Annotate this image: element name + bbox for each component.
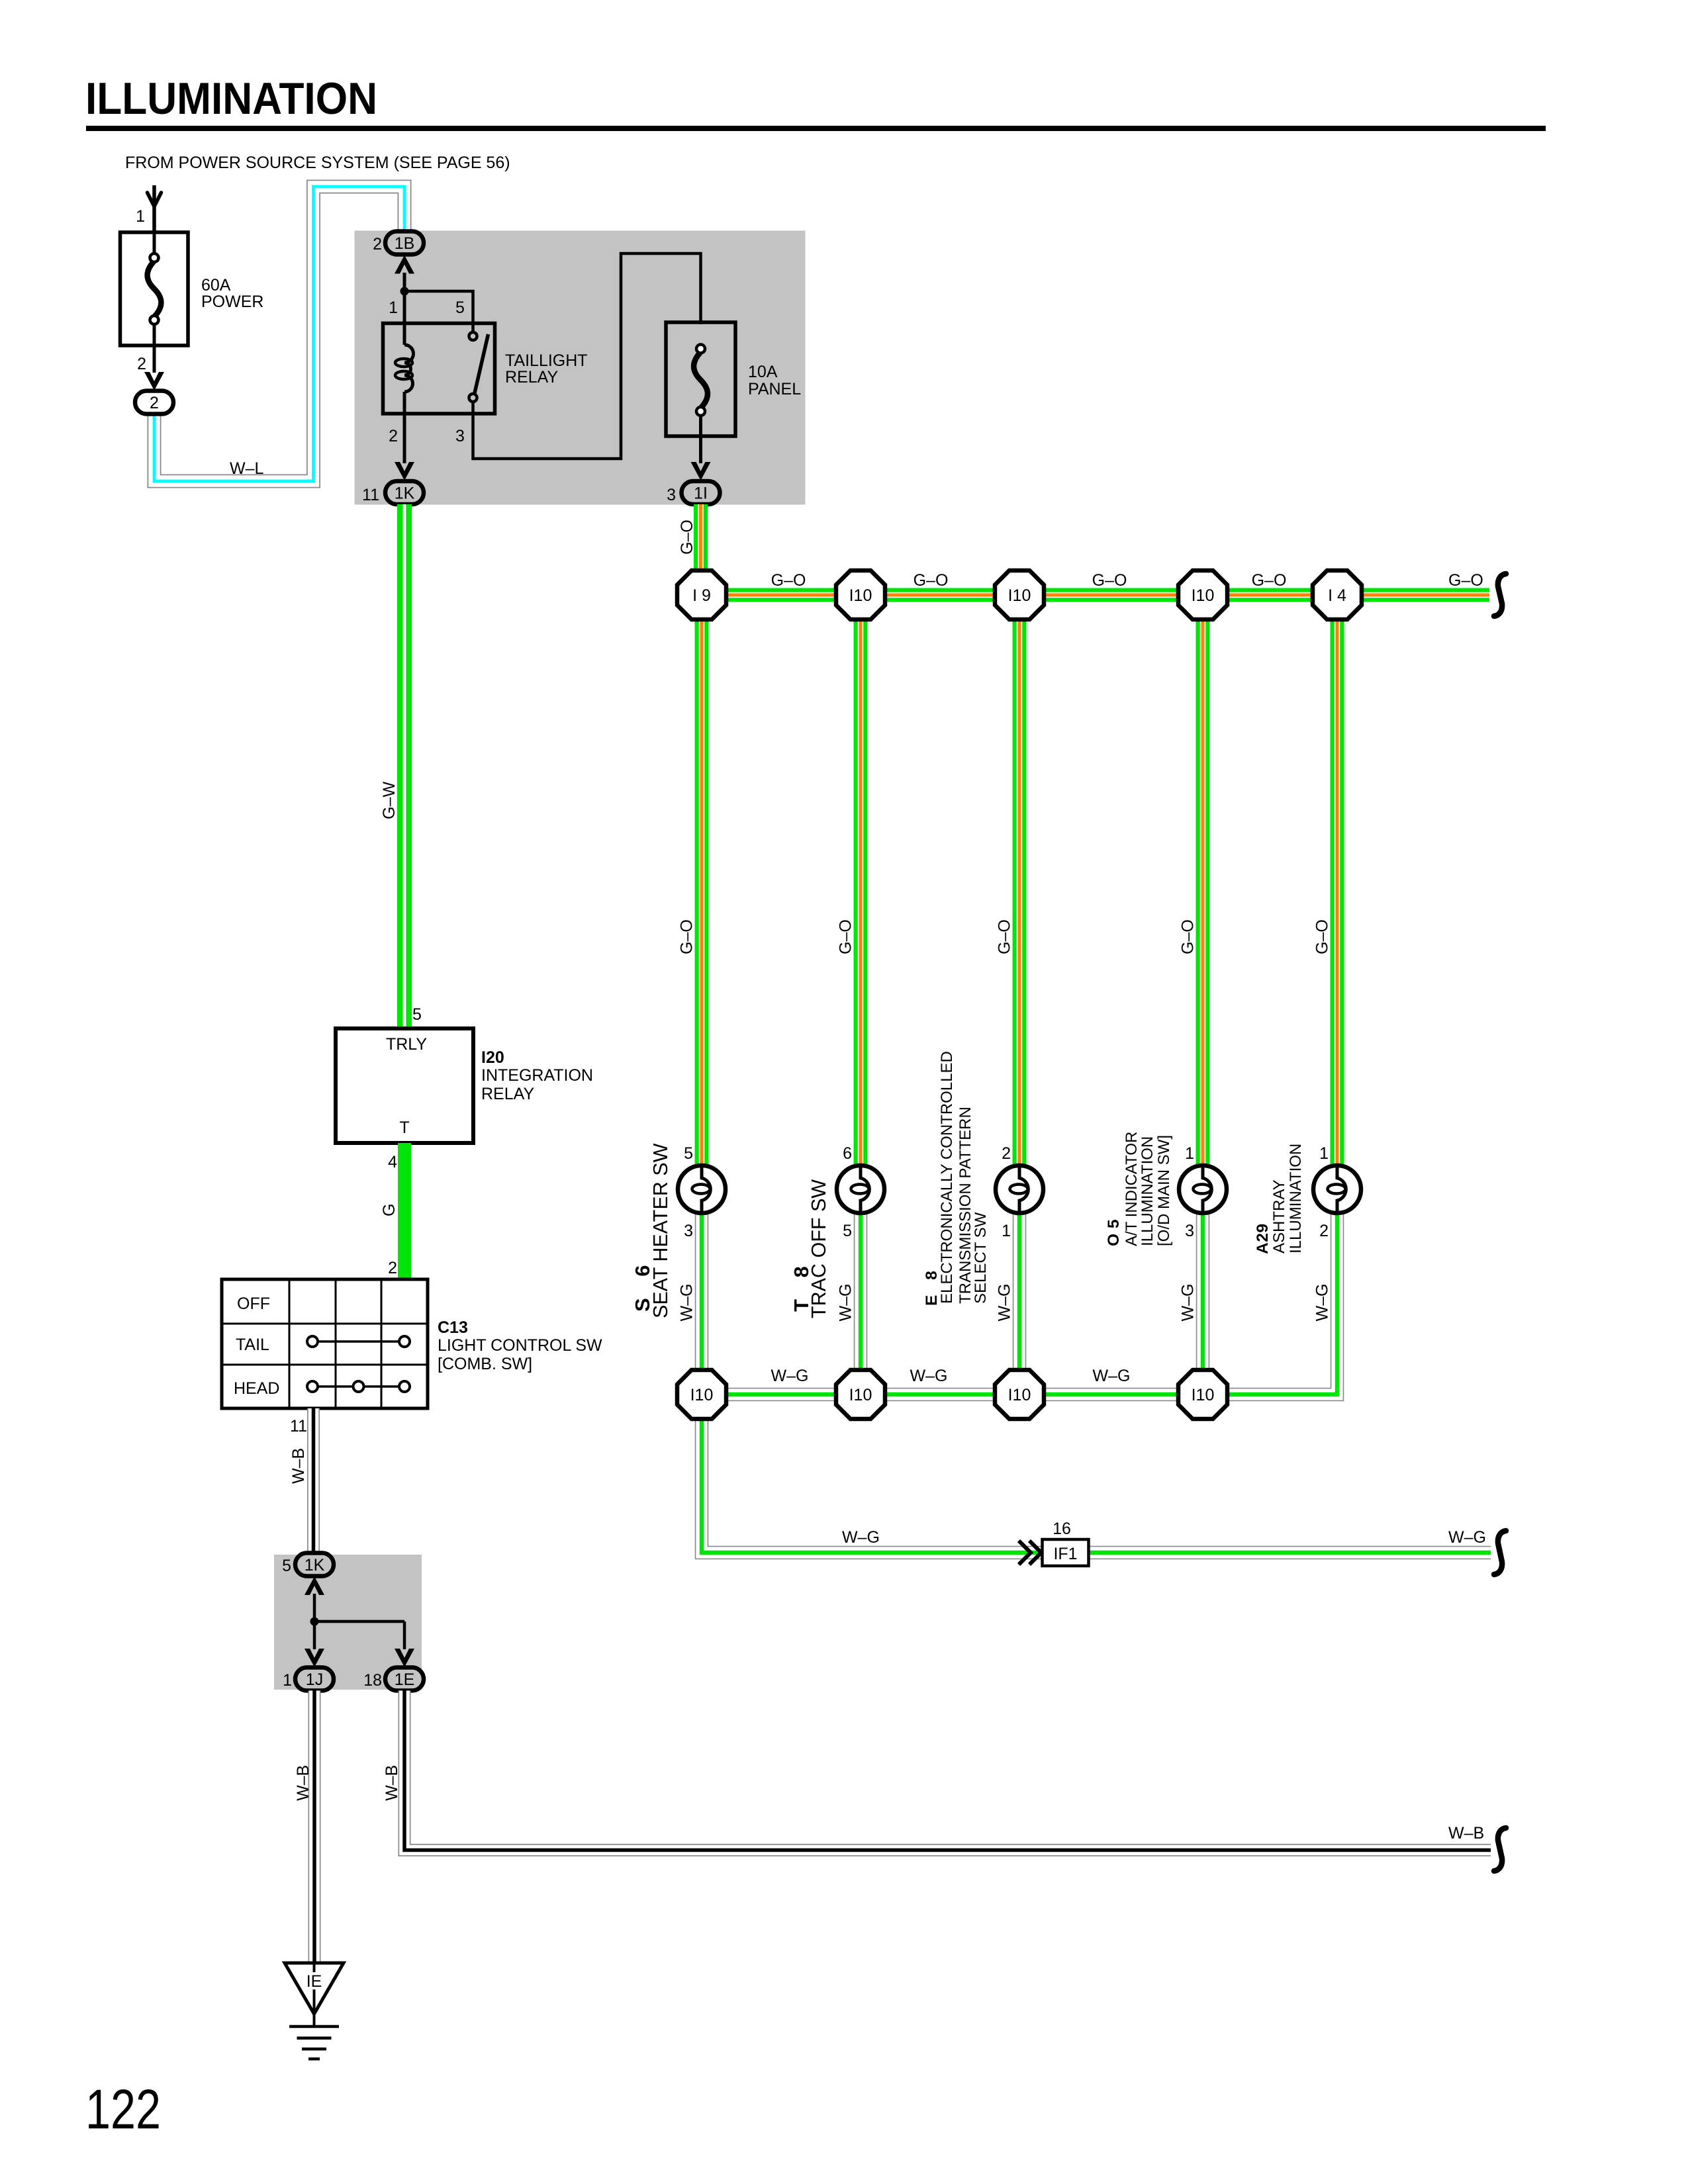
svg-text:1: 1 [389, 298, 398, 317]
svg-text:G–O: G–O [1179, 919, 1197, 954]
svg-text:G–W: G–W [380, 782, 399, 819]
chevrons into IF1 [1019, 1541, 1041, 1565]
svg-text:W–L: W–L [230, 459, 264, 478]
svg-text:TRLY: TRLY [386, 1035, 427, 1054]
svg-text:TAILLIGHT: TAILLIGHT [505, 351, 588, 370]
wire W-B from 1J to ground [308, 1691, 321, 1964]
arrow into connector 1J [305, 1649, 324, 1667]
wire G from I20 to light control switch [398, 1143, 411, 1279]
relay coil [403, 291, 406, 345]
svg-text:C13: C13 [438, 1318, 468, 1337]
svg-text:I10: I10 [690, 1386, 714, 1404]
svg-text:OFF: OFF [237, 1295, 270, 1313]
svg-text:FROM POWER SOURCE SYSTEM (SEE: FROM POWER SOURCE SYSTEM (SEE PAGE 56) [125, 154, 510, 172]
wire W-L from connector 2 to connector 1B [154, 187, 404, 481]
svg-text:ELECTRONICALLY CONTROLLED: ELECTRONICALLY CONTROLLED [938, 1051, 956, 1304]
svg-text:60A: 60A [201, 276, 231, 295]
arrow into connector 1B [395, 255, 414, 274]
joint connector I10 row2 col1 [677, 1370, 726, 1419]
svg-text:2: 2 [137, 355, 146, 373]
svg-text:1K: 1K [305, 1556, 325, 1574]
svg-text:2: 2 [373, 235, 382, 253]
svg-text:122: 122 [85, 2078, 161, 2140]
svg-text:W–G: W–G [1313, 1284, 1332, 1322]
lamp S6 illumination bulb [678, 1165, 726, 1213]
connector 1K [385, 481, 424, 504]
wire W-B from 1E to right continuation [404, 1691, 1491, 1850]
svg-text:G–O: G–O [1448, 571, 1483, 590]
svg-text:1J: 1J [306, 1670, 323, 1689]
svg-text:16: 16 [1053, 1520, 1071, 1538]
svg-text:I10: I10 [849, 586, 872, 605]
svg-text:1: 1 [1319, 1144, 1329, 1163]
svg-text:4: 4 [388, 1153, 397, 1171]
svg-text:SEAT HEATER SW: SEAT HEATER SW [649, 1143, 672, 1318]
svg-text:INTEGRATION: INTEGRATION [481, 1066, 593, 1085]
connector 1K lower [295, 1553, 334, 1576]
svg-text:W–G: W–G [837, 1284, 855, 1322]
svg-text:5: 5 [684, 1144, 693, 1163]
svg-text:3: 3 [684, 1222, 693, 1240]
svg-text:I20: I20 [481, 1048, 504, 1067]
svg-text:11: 11 [362, 486, 379, 504]
svg-text:1B: 1B [395, 234, 415, 253]
svg-text:5: 5 [455, 298, 465, 317]
junction block gray box 2 [274, 1555, 422, 1690]
svg-text:T: T [399, 1118, 409, 1137]
svg-text:2: 2 [1002, 1144, 1011, 1163]
svg-text:W–B: W–B [1448, 1824, 1484, 1843]
svg-text:W–G: W–G [678, 1284, 696, 1322]
wire junction to relay pin 5 [404, 291, 473, 333]
svg-text:HEAD: HEAD [234, 1379, 279, 1398]
svg-text:I10: I10 [849, 1386, 872, 1404]
fuse 60A POWER [120, 232, 189, 345]
svg-text:2: 2 [150, 394, 159, 412]
wire G-O bus: 1I drop, horizontal run, column drops [694, 504, 708, 573]
connector 1B [385, 232, 424, 255]
wire G-W from 1K to integration relay [397, 504, 412, 1028]
C13 contacts HEAD row [318, 1385, 399, 1388]
svg-text:W–G: W–G [842, 1528, 880, 1547]
fuse 10A PANEL [666, 322, 735, 436]
arrow into connector 2 [144, 372, 164, 390]
continuation brace G-O [1494, 574, 1506, 616]
svg-text:A29: A29 [1254, 1224, 1272, 1254]
svg-text:G–O: G–O [996, 919, 1014, 954]
C13 contacts TAIL row [318, 1340, 399, 1343]
svg-text:18: 18 [363, 1671, 382, 1690]
relay switch [469, 332, 477, 340]
svg-text:2: 2 [389, 427, 398, 445]
svg-text:G–O: G–O [678, 919, 696, 954]
junction block gray box 1 [355, 231, 806, 505]
joint connector I10 row1 col4 [1178, 570, 1227, 619]
arrow into connector 1I [691, 462, 711, 480]
junction node 2 [310, 1617, 319, 1626]
lamp O5 illumination bulb [1179, 1165, 1227, 1213]
svg-text:W–B: W–B [383, 1765, 401, 1801]
svg-text:1: 1 [1185, 1144, 1194, 1163]
svg-text:2: 2 [388, 1259, 397, 1277]
svg-text:2: 2 [1319, 1222, 1329, 1240]
junction node [400, 287, 409, 296]
arrow into connector 1K lower [305, 1576, 324, 1595]
light control switch C13 box [222, 1279, 428, 1408]
svg-text:IF1: IF1 [1053, 1545, 1077, 1563]
svg-text:W–G: W–G [771, 1367, 809, 1385]
svg-text:SELECT SW: SELECT SW [972, 1212, 990, 1304]
ground IE [285, 1963, 344, 2014]
title rule [86, 126, 1546, 131]
svg-text:W–G: W–G [996, 1284, 1014, 1322]
svg-text:RELAY: RELAY [505, 368, 558, 387]
svg-text:ILLUMINATION: ILLUMINATION [1287, 1144, 1305, 1253]
svg-text:1: 1 [1002, 1222, 1011, 1240]
svg-text:W–G: W–G [1093, 1367, 1131, 1385]
svg-text:5: 5 [282, 1557, 291, 1575]
lamp E8 illumination bulb [996, 1165, 1043, 1213]
svg-text:I 9: I 9 [692, 586, 711, 605]
wire W-G bus: lamp drops, horizontal run, IF1 run [695, 1213, 709, 1394]
svg-text:O 5: O 5 [1105, 1219, 1123, 1246]
joint connector I10 row1 col2 [836, 570, 885, 619]
svg-text:G–O: G–O [1092, 571, 1127, 590]
wires inside junction block 2 [314, 1594, 404, 1649]
continuation brace W-B [1494, 1828, 1506, 1871]
svg-text:G–O: G–O [914, 571, 949, 590]
svg-text:POWER: POWER [201, 293, 263, 311]
continuation brace W-G [1494, 1531, 1506, 1574]
svg-text:1: 1 [136, 207, 145, 226]
wire 1B to relay [403, 273, 406, 293]
svg-text:TAIL: TAIL [236, 1336, 269, 1354]
svg-text:PANEL: PANEL [748, 380, 801, 398]
joint connector I 9 row1 col1 [677, 570, 726, 619]
joint connector I10 row2 col4 [1178, 1370, 1227, 1419]
svg-text:11: 11 [290, 1417, 307, 1435]
svg-text:I10: I10 [1008, 1386, 1031, 1404]
svg-text:5: 5 [412, 1005, 422, 1024]
taillight relay box [383, 324, 495, 414]
svg-text:W–G: W–G [910, 1367, 948, 1385]
connector 1E [385, 1668, 424, 1691]
svg-text:TRAC OFF SW: TRAC OFF SW [808, 1179, 830, 1318]
svg-text:W–G: W–G [1448, 1528, 1486, 1547]
svg-text:[COMB. SW]: [COMB. SW] [438, 1355, 532, 1373]
svg-text:3: 3 [455, 427, 465, 445]
svg-text:6: 6 [843, 1144, 852, 1163]
connector IF1 [1043, 1539, 1089, 1566]
joint connector I 4 row1 col5 [1313, 570, 1362, 619]
svg-text:5: 5 [843, 1222, 852, 1240]
svg-text:G–O: G–O [678, 520, 696, 555]
svg-text:IE: IE [306, 1972, 322, 1991]
svg-text:I 4: I 4 [1328, 586, 1346, 605]
svg-text:I10: I10 [1008, 586, 1031, 605]
connector 1I [682, 481, 720, 504]
joint connector I10 row1 col3 [995, 570, 1044, 619]
connector 1J [295, 1668, 334, 1691]
arrow into connector 1K [395, 462, 414, 480]
integration relay I20 box [336, 1028, 473, 1143]
svg-text:LIGHT CONTROL SW: LIGHT CONTROL SW [438, 1336, 602, 1355]
svg-text:ILLUMINATION: ILLUMINATION [85, 73, 377, 124]
svg-text:10A: 10A [748, 363, 778, 381]
svg-text:G–O: G–O [771, 571, 806, 590]
svg-text:W–B: W–B [289, 1448, 308, 1484]
svg-text:A/T INDICATOR: A/T INDICATOR [1123, 1132, 1141, 1246]
svg-text:W–B: W–B [294, 1765, 312, 1801]
arrow into connector 1E [395, 1649, 414, 1667]
svg-text:1I: 1I [694, 484, 708, 503]
svg-text:G–O: G–O [1313, 919, 1332, 954]
svg-text:[O/D MAIN SW]: [O/D MAIN SW] [1155, 1135, 1173, 1246]
lamp T8 illumination bulb [837, 1165, 884, 1213]
svg-text:W–G: W–G [1179, 1284, 1197, 1322]
connector 2 [135, 391, 173, 414]
svg-text:G–O: G–O [1252, 571, 1287, 590]
svg-text:1E: 1E [395, 1670, 415, 1689]
svg-text:G–O: G–O [837, 919, 855, 954]
joint connector I10 row2 col2 [836, 1370, 885, 1419]
svg-text:I10: I10 [1192, 1386, 1215, 1404]
svg-text:I10: I10 [1192, 586, 1215, 605]
svg-text:1K: 1K [395, 484, 415, 503]
svg-text:RELAY: RELAY [481, 1085, 534, 1103]
svg-text:1: 1 [283, 1671, 292, 1690]
wire W-B from C13 to 1K [307, 1408, 320, 1553]
joint connector I10 row2 col3 [995, 1370, 1044, 1419]
svg-text:ILLUMINATION: ILLUMINATION [1139, 1136, 1156, 1246]
svg-text:3: 3 [1185, 1222, 1194, 1240]
wire relay pin3 to panel fuse [473, 253, 701, 459]
lamp A29 illumination bulb [1313, 1165, 1361, 1213]
wire from power source with arrow [152, 185, 156, 255]
svg-text:ASHTRAY: ASHTRAY [1270, 1179, 1288, 1253]
svg-text:3: 3 [667, 486, 676, 504]
svg-text:G: G [380, 1204, 399, 1216]
